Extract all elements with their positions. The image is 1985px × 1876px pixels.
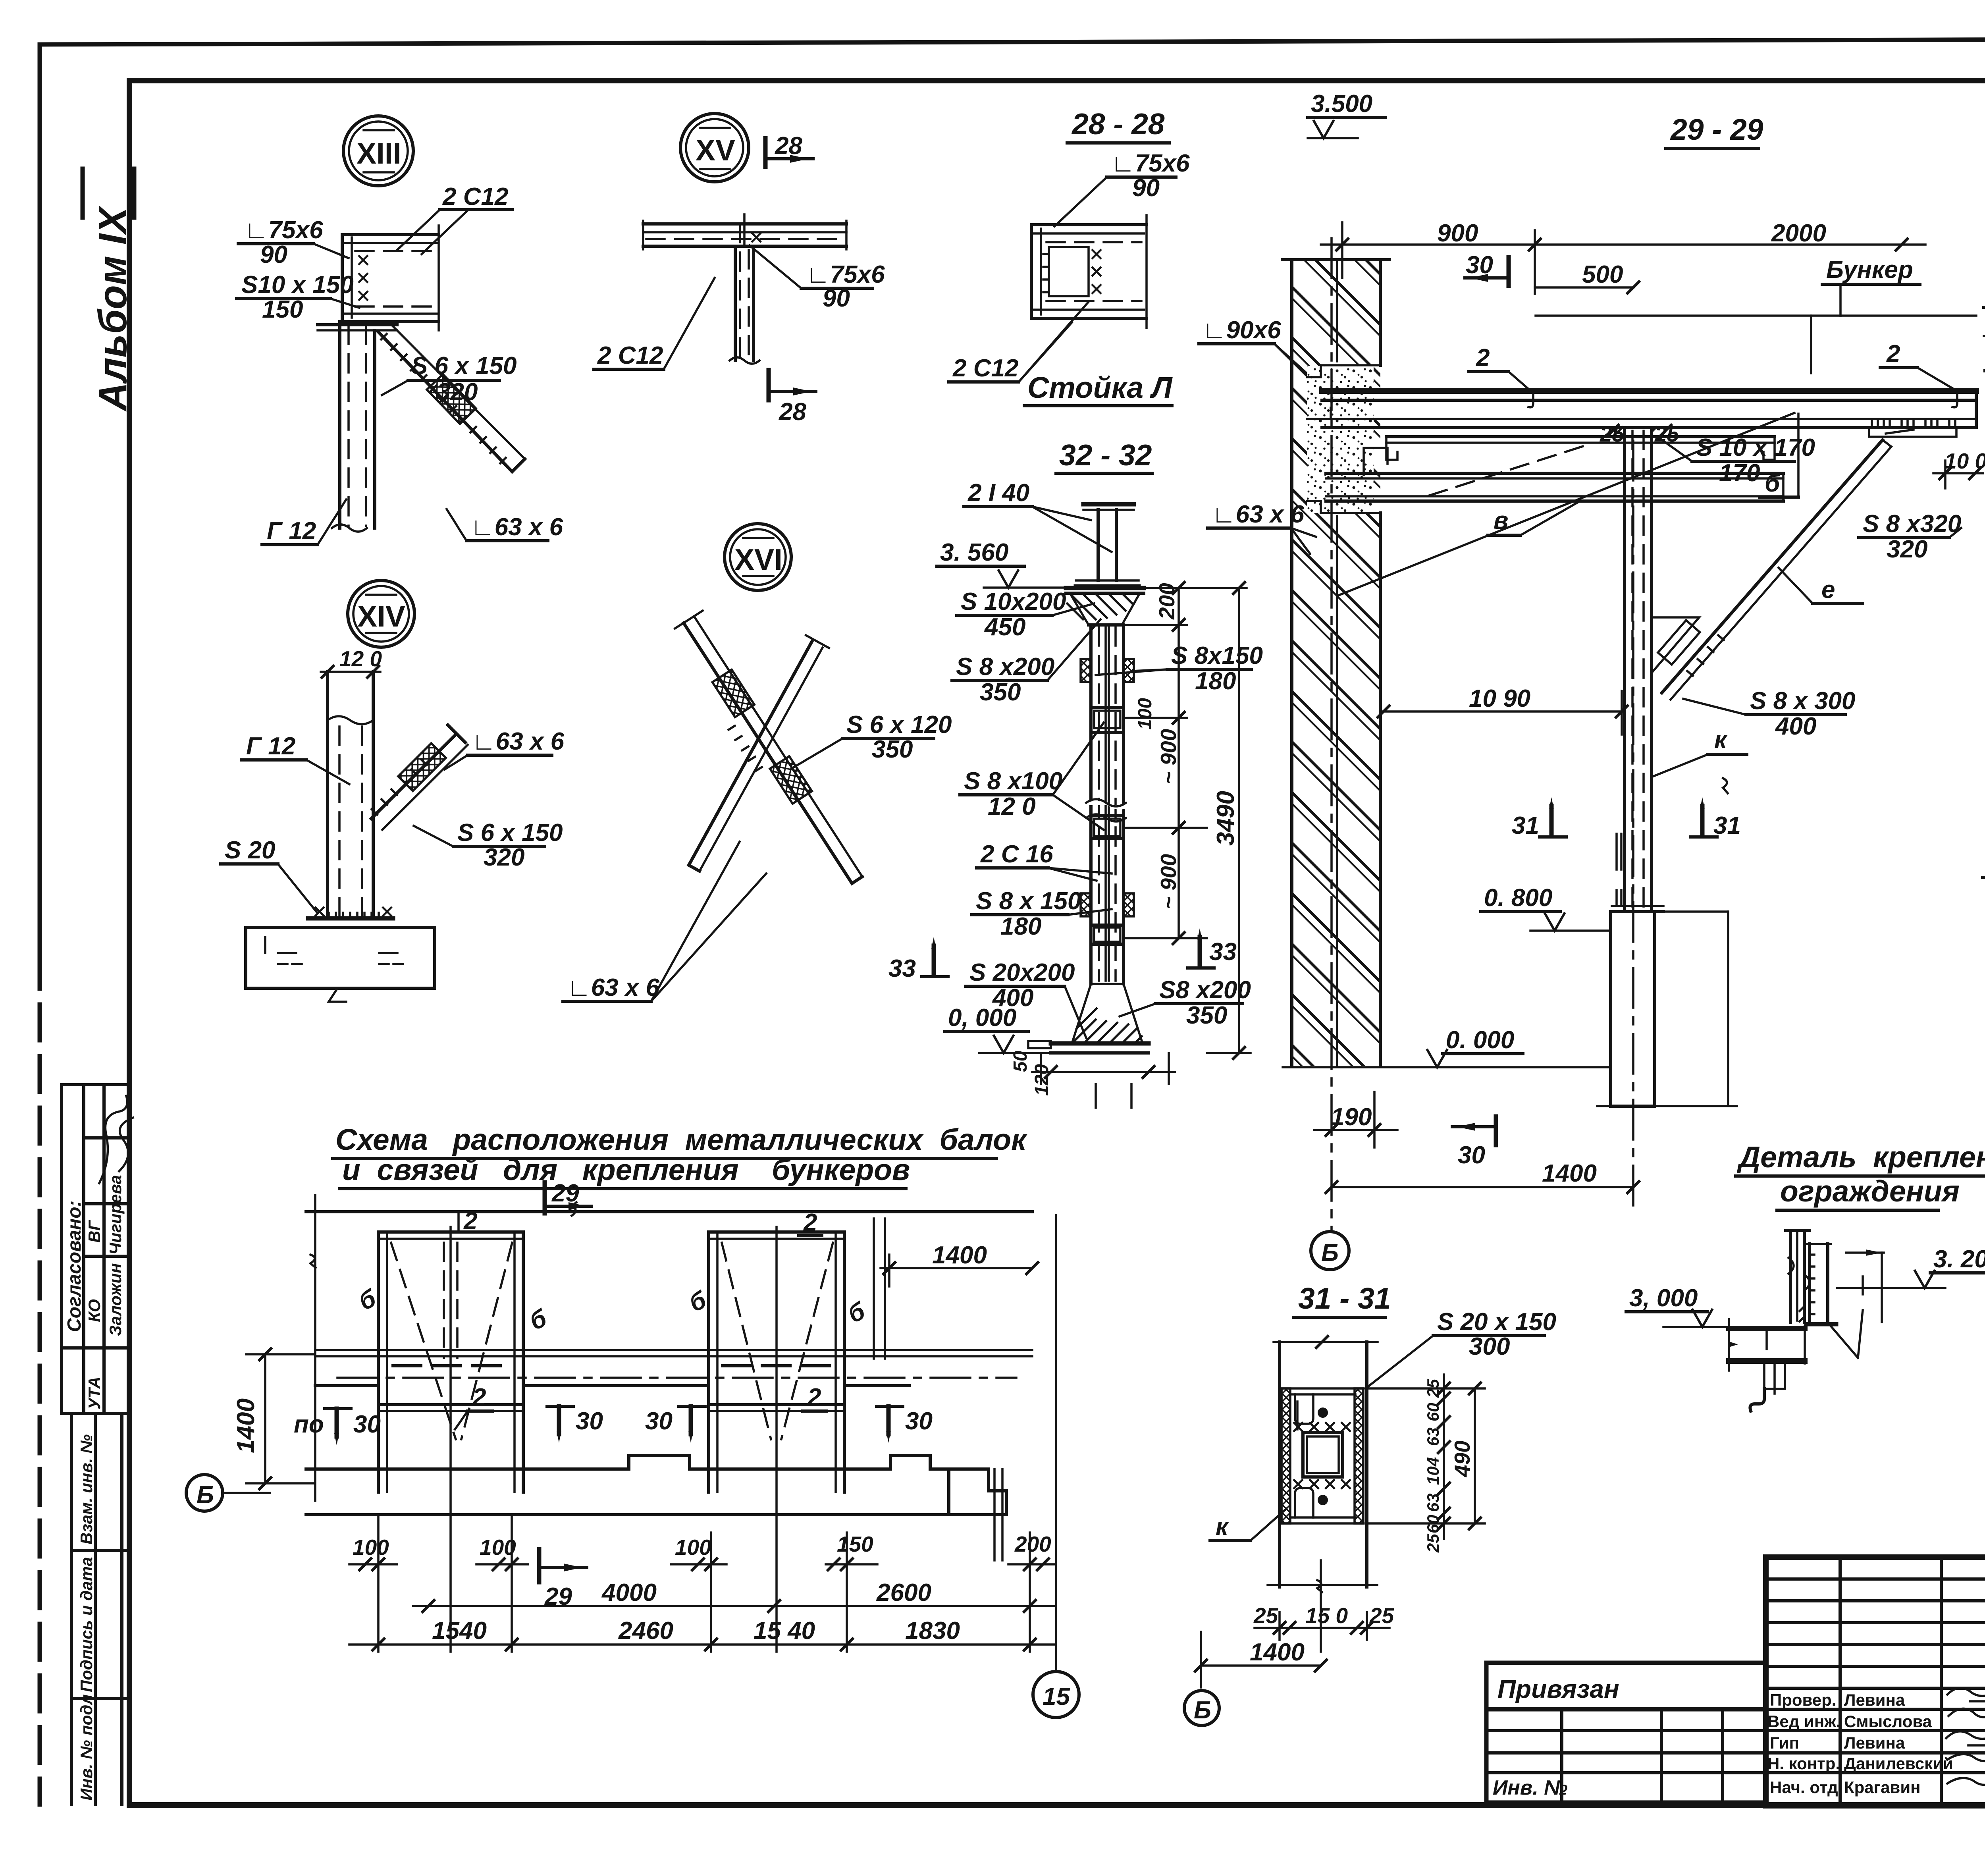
svg-text:Вед инж.: Вед инж. bbox=[1767, 1712, 1841, 1731]
opening 1 frame bbox=[378, 1230, 523, 1234]
section mark 28 top bbox=[763, 138, 768, 167]
svg-text:2: 2 bbox=[1886, 340, 1900, 368]
svg-text:31 - 31: 31 - 31 bbox=[1298, 1282, 1391, 1315]
svg-text:Нач. отд: Нач. отд bbox=[1770, 1778, 1838, 1797]
1400 dim top right bbox=[881, 1267, 1032, 1269]
svg-text:350: 350 bbox=[1186, 1002, 1227, 1029]
svg-text:S 6 x 150: S 6 x 150 bbox=[457, 819, 563, 846]
channel section bbox=[1030, 225, 1033, 318]
svg-text:1400: 1400 bbox=[1542, 1160, 1597, 1187]
svg-text:90: 90 bbox=[1132, 174, 1160, 202]
slab bbox=[1729, 1326, 1805, 1331]
svg-text:33: 33 bbox=[888, 955, 916, 982]
svg-text:1400: 1400 bbox=[932, 1242, 987, 1269]
base plate + weld bbox=[308, 916, 393, 921]
svg-text:e: e bbox=[1821, 576, 1835, 603]
foundation bbox=[244, 927, 247, 988]
svg-text:S 8 x 150: S 8 x 150 bbox=[976, 887, 1081, 915]
svg-text:100: 100 bbox=[353, 1535, 389, 1560]
svg-text:2 С12: 2 С12 bbox=[597, 342, 663, 369]
dim row 2: 1540 2460 1540 1830 bbox=[349, 1643, 1056, 1646]
bracket channel bbox=[1808, 1244, 1811, 1324]
column cap bbox=[1066, 586, 1144, 590]
svg-text:350: 350 bbox=[980, 679, 1021, 706]
railing post bbox=[1789, 1230, 1792, 1322]
svg-text:28: 28 bbox=[775, 132, 802, 160]
svg-text:30: 30 bbox=[576, 1407, 603, 1435]
I-beam 2I40 on top bbox=[1083, 502, 1134, 507]
svg-text:100: 100 bbox=[1135, 698, 1156, 730]
svg-text:2: 2 bbox=[807, 1384, 821, 1411]
section mark 30 bottom bbox=[1494, 1116, 1498, 1145]
svg-text:25: 25 bbox=[1369, 1603, 1395, 1628]
dim 1090 bbox=[1380, 710, 1625, 713]
brace L63x6 bbox=[371, 734, 457, 819]
svg-text:90: 90 bbox=[823, 285, 850, 312]
svg-text:104: 104 bbox=[1424, 1457, 1442, 1485]
svg-text:Г 12: Г 12 bbox=[267, 517, 316, 545]
column below bbox=[338, 322, 341, 528]
svg-text:Крагавин: Крагавин bbox=[1844, 1778, 1921, 1797]
svg-text:2: 2 bbox=[803, 1209, 817, 1236]
svg-text:10 90: 10 90 bbox=[1469, 685, 1530, 712]
bottom outline with notches bbox=[306, 1456, 949, 1469]
bottom of 31-31 bbox=[1320, 1560, 1322, 1652]
svg-text:320: 320 bbox=[437, 378, 478, 406]
svg-text:Смыслова: Смыслова bbox=[1844, 1712, 1932, 1731]
1400 vertical dim left bbox=[264, 1354, 266, 1483]
svg-text:Альбом IX: Альбом IX bbox=[91, 205, 135, 412]
svg-text:3, 000: 3, 000 bbox=[1629, 1284, 1698, 1312]
svg-text:190: 190 bbox=[1331, 1103, 1372, 1131]
node Б circle bottom bbox=[1311, 1232, 1349, 1270]
svg-text:28: 28 bbox=[779, 398, 806, 426]
pit below bbox=[1040, 1053, 1042, 1084]
svg-text:Инв. № подл: Инв. № подл bbox=[77, 1695, 96, 1801]
opening 2 frame bbox=[709, 1230, 844, 1234]
main table outline bbox=[1766, 1557, 1985, 1806]
svg-text:2 С12: 2 С12 bbox=[952, 355, 1018, 382]
svg-text:XVI: XVI bbox=[734, 543, 782, 576]
channel 2C12 section bbox=[341, 235, 344, 322]
dim 190 bbox=[1373, 1092, 1376, 1147]
brace e bbox=[1662, 440, 1883, 693]
box section bbox=[1282, 1388, 1363, 1523]
dim 1400 bbox=[1332, 1186, 1633, 1188]
svg-text:Левина: Левина bbox=[1844, 1733, 1905, 1752]
node XIV circle bbox=[348, 580, 414, 647]
svg-text:33: 33 bbox=[1209, 938, 1237, 966]
svg-text:Чигирева: Чигирева bbox=[106, 1175, 125, 1255]
svg-text:400: 400 bbox=[1775, 713, 1816, 740]
svg-text:1400: 1400 bbox=[1250, 1639, 1305, 1666]
column bbox=[1623, 428, 1626, 911]
svg-text:Данилевский: Данилевский bbox=[1844, 1754, 1953, 1773]
right wall verticals bbox=[873, 1219, 875, 1359]
svg-text:32 - 32: 32 - 32 bbox=[1059, 438, 1152, 472]
svg-text:3.500: 3.500 bbox=[1311, 90, 1372, 118]
diagonal gusset + angle bbox=[378, 332, 512, 472]
svg-text:∟63 x 6: ∟63 x 6 bbox=[472, 728, 565, 755]
svg-text:по: по bbox=[294, 1411, 324, 1438]
svg-text:180: 180 bbox=[1195, 667, 1236, 695]
svg-text:490: 490 bbox=[1450, 1440, 1474, 1477]
axes down bbox=[449, 1227, 452, 1652]
small dims 100/100/100/150/200 bbox=[377, 1515, 380, 1652]
top wall line bbox=[306, 1210, 1032, 1213]
node XV circle bbox=[680, 114, 749, 182]
section mark 29 bottom bbox=[537, 1549, 542, 1582]
svg-text:3. 200: 3. 200 bbox=[1933, 1246, 1985, 1273]
svg-text:∟63 x 6: ∟63 x 6 bbox=[567, 974, 660, 1001]
column C12 bbox=[326, 672, 329, 918]
svg-text:60: 60 bbox=[1424, 1403, 1442, 1421]
left stamp column: upper block bbox=[62, 1083, 129, 1086]
svg-text:60: 60 bbox=[1424, 1515, 1442, 1533]
node 15 circle bbox=[1033, 1672, 1079, 1718]
svg-text:3490: 3490 bbox=[1212, 791, 1239, 846]
svg-text:150: 150 bbox=[837, 1532, 873, 1556]
svg-text:500: 500 bbox=[1582, 261, 1623, 288]
svg-text:ВГ: ВГ bbox=[85, 1220, 104, 1243]
svg-text:100: 100 bbox=[675, 1535, 711, 1560]
svg-text:30: 30 bbox=[1458, 1141, 1485, 1169]
right dim chain outer 3490 bbox=[1238, 588, 1240, 1053]
svg-text:2 I 40: 2 I 40 bbox=[967, 479, 1029, 507]
T-beam bbox=[643, 222, 846, 226]
mid joint 1 bbox=[1094, 711, 1120, 728]
svg-text:30: 30 bbox=[353, 1411, 381, 1438]
node XVI circle bbox=[725, 524, 791, 590]
long leader diagonal bbox=[1338, 413, 1794, 596]
svg-text:S 20 x 150: S 20 x 150 bbox=[1437, 1308, 1556, 1336]
wall verticals bbox=[1278, 1342, 1281, 1587]
gusset at beam right end bbox=[1869, 428, 1956, 437]
svg-text:200: 200 bbox=[1154, 583, 1179, 620]
svg-text:3. 560: 3. 560 bbox=[940, 539, 1008, 566]
svg-text:0, 000: 0, 000 bbox=[948, 1004, 1016, 1032]
stiffeners lower S8x150 bbox=[1081, 893, 1091, 916]
hook below slab bbox=[1764, 1361, 1785, 1389]
svg-text:S 10x200: S 10x200 bbox=[961, 588, 1066, 615]
left signature grid bbox=[1839, 1557, 1842, 1806]
section mark 28 bottom bbox=[767, 370, 771, 400]
svg-text:~ 900: ~ 900 bbox=[1156, 729, 1181, 784]
node Б circle plan bbox=[186, 1475, 223, 1511]
svg-text:2: 2 bbox=[472, 1384, 486, 1411]
svg-text:к: к bbox=[1216, 1513, 1229, 1541]
svg-text:∟90x6: ∟90x6 bbox=[1202, 316, 1281, 344]
svg-text:2460: 2460 bbox=[618, 1617, 673, 1645]
svg-text:320: 320 bbox=[1887, 536, 1927, 563]
svg-text:S 8x150: S 8x150 bbox=[1171, 642, 1263, 669]
svg-text:29 - 29: 29 - 29 bbox=[1670, 113, 1763, 146]
svg-text:Подпись и дата: Подпись и дата bbox=[77, 1557, 96, 1692]
wall lower edges bbox=[315, 1384, 378, 1387]
svg-text:Инв. №: Инв. № bbox=[1493, 1776, 1568, 1799]
svg-text:S 6 x 150: S 6 x 150 bbox=[411, 352, 516, 380]
svg-text:Заложин: Заложин bbox=[106, 1263, 125, 1336]
stiffeners upper S8x150 bbox=[1081, 659, 1091, 682]
dim 500 bbox=[1534, 230, 1536, 294]
svg-text:2 С 16: 2 С 16 bbox=[980, 841, 1053, 868]
svg-text:S 8 x100: S 8 x100 bbox=[964, 767, 1062, 795]
svg-text:15 40: 15 40 bbox=[754, 1617, 815, 1645]
svg-text:30: 30 bbox=[645, 1407, 673, 1435]
svg-text:XIII: XIII bbox=[357, 137, 401, 170]
svg-text:УТА: УТА bbox=[85, 1377, 104, 1409]
node XIII circle bbox=[343, 116, 413, 186]
svg-text:150: 150 bbox=[262, 296, 303, 323]
svg-text:30: 30 bbox=[1466, 251, 1493, 279]
cross beams horizontal bbox=[315, 1349, 1032, 1351]
pocket outline bbox=[1307, 365, 1380, 377]
left stamp column: lower block bbox=[70, 1413, 73, 1805]
svg-text:12 0: 12 0 bbox=[339, 646, 382, 671]
svg-text:90: 90 bbox=[260, 241, 287, 268]
svg-text:Н. контр.: Н. контр. bbox=[1767, 1754, 1840, 1773]
svg-text:∟63 x 6: ∟63 x 6 bbox=[470, 513, 563, 541]
svg-text:0. 800: 0. 800 bbox=[1484, 884, 1552, 912]
mid joint 2 bbox=[1094, 819, 1120, 836]
column shaft bbox=[1089, 625, 1093, 984]
svg-text:Согласовано:: Согласовано: bbox=[64, 1200, 85, 1332]
svg-text:350: 350 bbox=[872, 736, 913, 763]
svg-text:в: в bbox=[1494, 507, 1508, 534]
svg-text:12 0: 12 0 bbox=[988, 793, 1036, 820]
svg-text:S8 x200: S8 x200 bbox=[1159, 976, 1251, 1004]
svg-text:Стойка Л: Стойка Л bbox=[1027, 371, 1173, 404]
dashed V inside opening 1 bbox=[391, 1243, 456, 1439]
page outer border bbox=[38, 44, 42, 953]
svg-text:Левина: Левина bbox=[1844, 1691, 1905, 1709]
svg-text:Взам. инв. №: Взам. инв. № bbox=[77, 1434, 96, 1544]
X brace bbox=[684, 623, 852, 883]
svg-text:4000: 4000 bbox=[601, 1579, 657, 1606]
svg-text:КО: КО bbox=[85, 1299, 104, 1322]
svg-text:Схема расположения металлич: Схема расположения металлических балок bbox=[335, 1123, 1028, 1156]
svg-text:31: 31 bbox=[1512, 812, 1539, 839]
weld marks at column top bbox=[1618, 427, 1656, 432]
svg-text:S 20x200: S 20x200 bbox=[969, 959, 1075, 986]
right dim chains bbox=[1443, 1375, 1445, 1539]
svg-text:50: 50 bbox=[1010, 1051, 1031, 1072]
svg-text:Б: Б bbox=[1321, 1239, 1339, 1267]
svg-text:S 8 x200: S 8 x200 bbox=[956, 653, 1054, 681]
svg-text:25: 25 bbox=[1424, 1379, 1442, 1398]
svg-text:Привязан: Привязан bbox=[1497, 1675, 1619, 1703]
svg-text:1540: 1540 bbox=[432, 1617, 487, 1645]
top dimension line 900/2000 bbox=[1321, 243, 1925, 246]
svg-text:Гип: Гип bbox=[1770, 1733, 1799, 1752]
svg-text:2: 2 bbox=[463, 1207, 477, 1235]
section mark 29 top bbox=[543, 1182, 547, 1213]
lower floor channel+beam bbox=[1386, 435, 1775, 438]
svg-text:900: 900 bbox=[1437, 220, 1478, 247]
svg-text:25: 25 bbox=[1253, 1603, 1279, 1628]
svg-text:S 8 x 300: S 8 x 300 bbox=[1750, 687, 1855, 715]
svg-text:Б: Б bbox=[197, 1481, 214, 1509]
svg-text:∟75x6: ∟75x6 bbox=[806, 261, 885, 288]
signatures squiggles bbox=[1947, 1688, 1985, 1696]
svg-text:200: 200 bbox=[1014, 1532, 1051, 1556]
wall axis Б bbox=[1330, 238, 1333, 1231]
svg-text:XV: XV bbox=[696, 133, 735, 167]
right dim chain inner bbox=[1178, 588, 1180, 938]
svg-text:2 С12: 2 С12 bbox=[442, 183, 508, 210]
svg-text:15: 15 bbox=[1043, 1683, 1070, 1710]
svg-text:S10 x 150: S10 x 150 bbox=[241, 271, 354, 299]
svg-text:Г 12: Г 12 bbox=[246, 733, 295, 760]
svg-text:S 8 x320: S 8 x320 bbox=[1863, 510, 1961, 538]
node Б circle bbox=[1184, 1691, 1219, 1726]
base bbox=[1072, 984, 1143, 1043]
svg-text:180: 180 bbox=[1000, 913, 1041, 940]
svg-text:XIV: XIV bbox=[357, 600, 405, 633]
dim row 1: 4000 2600 bbox=[413, 1605, 1056, 1607]
svg-text:2600: 2600 bbox=[876, 1579, 931, 1606]
main beam bbox=[1322, 388, 1976, 394]
base plate + pedestal bbox=[1612, 905, 1663, 907]
svg-text:25: 25 bbox=[1424, 1534, 1442, 1553]
svg-text:∟75x6: ∟75x6 bbox=[244, 216, 323, 244]
svg-text:0. 000: 0. 000 bbox=[1446, 1026, 1514, 1054]
svg-text:Б: Б bbox=[1194, 1697, 1211, 1724]
svg-text:~ 900: ~ 900 bbox=[1156, 854, 1181, 909]
svg-text:320: 320 bbox=[484, 844, 524, 871]
svg-text:100: 100 bbox=[480, 1535, 516, 1560]
svg-text:∟75x6: ∟75x6 bbox=[1111, 150, 1190, 177]
V shape below bbox=[1830, 1325, 1858, 1358]
svg-text:1400: 1400 bbox=[232, 1398, 260, 1453]
svg-text:ограждения: ограждения bbox=[1780, 1174, 1960, 1208]
svg-text:1830: 1830 bbox=[905, 1617, 960, 1645]
left axis bbox=[314, 1195, 316, 1501]
break in shaft bbox=[1084, 801, 1131, 810]
svg-text:28 - 28: 28 - 28 bbox=[1071, 107, 1165, 141]
svg-text:2: 2 bbox=[1476, 344, 1490, 372]
svg-text:31: 31 bbox=[1713, 812, 1741, 839]
brace lower gusset bbox=[1652, 617, 1699, 673]
svg-text:30: 30 bbox=[905, 1407, 933, 1435]
svg-text:63: 63 bbox=[1424, 1493, 1442, 1512]
svg-text:Бункер: Бункер bbox=[1826, 256, 1913, 283]
svg-text:2000: 2000 bbox=[1771, 220, 1826, 247]
svg-text:S 20: S 20 bbox=[225, 837, 276, 864]
svg-text:63: 63 bbox=[1424, 1427, 1442, 1446]
svg-text:и связей для крепления: и связей для крепления бункеров bbox=[342, 1153, 910, 1186]
svg-text:к: к bbox=[1714, 726, 1728, 754]
section mark 30 top bbox=[1507, 257, 1511, 286]
1400 bbox=[1201, 1664, 1321, 1667]
svg-text:Деталь крепления: Деталь крепления bbox=[1736, 1140, 1985, 1174]
lower joint bbox=[1094, 927, 1120, 942]
svg-text:15 0: 15 0 bbox=[1305, 1603, 1348, 1628]
svg-text:450: 450 bbox=[984, 613, 1025, 641]
svg-text:S 6 x 120: S 6 x 120 bbox=[846, 711, 952, 738]
svg-text:300: 300 bbox=[1469, 1333, 1510, 1360]
svg-text:Провер.: Провер. bbox=[1770, 1691, 1836, 1709]
wall with hatch bbox=[1292, 260, 1380, 1066]
